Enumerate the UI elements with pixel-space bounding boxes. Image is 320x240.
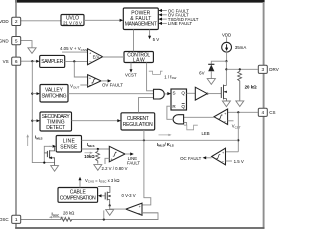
svg-text:5: 5: [15, 38, 18, 44]
wire DRV node vertical: [225, 61, 227, 84]
wire bus to valley switching: [32, 93, 37, 95]
wire buffer to driver gate: [207, 93, 221, 95]
node bus corner junction: [43, 162, 45, 164]
svg-text:OC FAULT: OC FAULT: [180, 156, 201, 161]
wire control law to AND gate: [147, 63, 154, 91]
wire VDD stub: [226, 37, 228, 42]
block UVLO: [61, 15, 84, 26]
arrow into VALLEY SWITCHING: [37, 92, 40, 95]
transistor Q2 (driver pulldown): [221, 85, 227, 101]
resistor 28k (zigzag): [61, 217, 73, 221]
wire CS pin to comparator: [228, 111, 258, 113]
wire clamp branch: [211, 61, 226, 64]
node DRV junction: [225, 68, 227, 70]
wire comparator to AND2: [184, 116, 214, 118]
wire fault input TSD/SD: [162, 18, 167, 20]
wire K line down to cable amp: [142, 140, 151, 205]
ground (line sense): [51, 166, 59, 172]
wire valley switching to AND gate: [68, 93, 154, 95]
op-amp EA: [88, 49, 103, 65]
wire LEB input stub: [184, 123, 187, 126]
wire latch Q to buffer: [187, 92, 196, 94]
transistor Q1 drain lead: [50, 147, 55, 151]
wire OV comparator output: [101, 80, 108, 82]
svg-text:4: 4: [261, 110, 264, 116]
svg-text:28 kΩ: 28 kΩ: [63, 211, 75, 216]
op-amp U9 (cable compensation amp, mirrored): [126, 203, 142, 216]
comparator U7 (overcurrent): [212, 148, 226, 165]
wire line sense lower output: [82, 148, 110, 150]
wire sampler output to EA: [65, 60, 88, 62]
svg-text:0 V-3 V: 0 V-3 V: [122, 193, 136, 198]
svg-text:IMLS: IMLS: [35, 135, 43, 141]
svg-text:2: 2: [15, 19, 18, 25]
svg-text:LAW: LAW: [133, 58, 145, 64]
zener D1 6V: [208, 64, 214, 78]
svg-text:DRV: DRV: [269, 67, 278, 72]
svg-text:1 / fSW: 1 / fSW: [164, 74, 176, 80]
svg-text:LINE: LINE: [63, 138, 76, 144]
block SAMPLER: [40, 55, 65, 67]
transistor Q1 (line sense NMOS) gate stub: [44, 152, 47, 154]
current direction arrow I_OSC (left): [51, 216, 64, 218]
wire current regulation to AND gate: [139, 98, 154, 113]
wire power management to control law: [133, 30, 135, 52]
transistor Q1 body arrow: [49, 157, 52, 160]
svg-text:−: −: [89, 59, 92, 64]
wire cable amp inverting input: [142, 212, 158, 214]
wire bus riser to line sense: [44, 146, 49, 162]
arrow into POWER & FAULT MANAGEMENT: [120, 19, 124, 22]
block CABLE COMPENSATION: [58, 188, 98, 203]
waveform LEB: [184, 125, 198, 130]
svg-text:VS: VS: [3, 59, 9, 64]
wire 5V output arrow: [149, 30, 151, 37]
gate U3 (AND): [154, 89, 165, 99]
svg-text:6: 6: [15, 59, 18, 65]
wire fault input OV: [162, 14, 167, 16]
current direction arrow (line sense): [85, 152, 92, 154]
pin 4 CS: [258, 108, 275, 116]
wire VDD pin to UVLO: [21, 20, 62, 22]
pin 3 DRV: [258, 65, 278, 73]
svg-text:VOUT: VOUT: [70, 84, 79, 90]
svg-text:VCVS = IOSC x 3 kΩ: VCVS = IOSC x 3 kΩ: [85, 178, 120, 184]
arrow into LINE SENSE: [53, 145, 56, 148]
ground (20k resistor): [236, 101, 244, 107]
wire fault input OC: [162, 10, 167, 12]
block CURRENT REGULATION: [121, 113, 155, 130]
ground (driver): [222, 101, 230, 107]
svg-text:VDD: VDD: [0, 19, 9, 24]
wire threshold stub: [105, 158, 109, 164]
arrow into latch S: [167, 92, 171, 95]
svg-text:Q: Q: [181, 104, 185, 109]
wire VCST arrow out of control law: [130, 63, 132, 71]
buffer U4 (gate driver): [195, 87, 207, 100]
node current regulation junction: [143, 139, 145, 141]
transistor Q1 channel: [49, 150, 51, 158]
comparator U5 (current sense): [214, 109, 228, 125]
svg-text:MANAGEMENT: MANAGEMENT: [125, 22, 157, 28]
pin 5 GND: [0, 37, 21, 45]
svg-text:IMLS: IMLS: [87, 142, 95, 148]
current source I1: [222, 42, 232, 52]
resistor R2 20k (zigzag): [238, 69, 242, 101]
svg-text:3: 3: [261, 67, 264, 73]
pin 1 OSC: [0, 215, 21, 223]
wire junction down to OV comparator: [74, 61, 87, 77]
transistor Q1 source lead: [50, 158, 55, 166]
ground (10k resistor): [94, 165, 102, 171]
svg-text:21 V / 8 V: 21 V / 8 V: [63, 20, 83, 25]
wire AND to latch S: [164, 93, 167, 95]
wire gate to cable compensation (arrow into box): [101, 195, 105, 197]
svg-text:20 kΩ: 20 kΩ: [245, 85, 258, 90]
svg-text:REGULATION: REGULATION: [123, 122, 153, 128]
svg-text:Q: Q: [181, 91, 185, 96]
wire VS pin to sampler: [21, 60, 38, 62]
pin 2 VDD: [0, 17, 21, 25]
svg-text:CS: CS: [269, 110, 275, 115]
arrow into SAMPLER: [36, 60, 39, 63]
node buffer output: [207, 93, 209, 95]
border frame: [15, 0, 265, 229]
svg-text:35mA: 35mA: [235, 45, 247, 50]
wire AND2 output to latch R: [167, 106, 173, 119]
svg-text:S: S: [172, 91, 175, 96]
svg-text:COMPENSATION: COMPENSATION: [60, 196, 96, 202]
node CS junction: [237, 111, 239, 113]
wire UVLO to power management: [84, 19, 121, 21]
svg-text:VDD: VDD: [222, 32, 231, 37]
svg-text:5 V: 5 V: [153, 37, 160, 42]
ground (GND pin): [28, 48, 36, 54]
block SECONDARY TIMING DETECT: [40, 112, 72, 131]
wire STD to current regulation: [72, 120, 119, 122]
comparator U8 (line fault): [109, 146, 125, 162]
current direction arrow (K line): [159, 134, 170, 136]
block POWER & FAULT MANAGEMENT: [123, 8, 158, 30]
svg-text:4.05 V + VCSS: 4.05 V + VCSS: [60, 46, 87, 52]
svg-text:FAULT: FAULT: [127, 161, 140, 166]
transistor Q3 (cable comp): [98, 186, 111, 205]
ground (zener): [207, 79, 215, 85]
wire CS vertical to K junction: [237, 112, 239, 152]
wire EA output to control law: [103, 56, 124, 58]
wire K line (secondary current): [82, 139, 239, 141]
wire VS bus vertical: [32, 61, 54, 162]
node clamp junction: [225, 60, 227, 62]
block CONTROL LAW: [124, 52, 153, 64]
svg-text:OSC: OSC: [0, 217, 9, 222]
wire line fault output: [125, 153, 131, 155]
node 10k junction: [97, 148, 99, 150]
current direction arrow I_MLS (up): [27, 137, 29, 146]
gate U6 (AND, LEB, mirrored): [173, 115, 184, 124]
svg-text:1: 1: [15, 217, 18, 223]
svg-text:6V: 6V: [199, 71, 204, 76]
arrow into CURRENT REGULATION: [117, 119, 121, 122]
arrow V_CVS out of cable compensation: [79, 180, 81, 188]
ground (cable comp): [106, 210, 114, 216]
wire OSC pin net: [21, 213, 158, 220]
svg-text:DETECT: DETECT: [46, 125, 65, 131]
waveform 1/fsw: [149, 71, 163, 74]
node OSC-cable junction: [103, 218, 105, 220]
svg-text:IOSC: IOSC: [52, 211, 61, 217]
wire bus to secondary timing detect: [32, 120, 37, 122]
wire OC comparator output: [206, 157, 212, 159]
svg-text:SWITCHING: SWITCHING: [42, 93, 67, 99]
node 20k junction: [239, 68, 241, 70]
latch U2 (SR flip-flop): [171, 89, 187, 110]
node K junction: [237, 139, 239, 141]
arrow into SECONDARY TIMING DETECT: [37, 119, 40, 122]
resistor R3 10k (zigzag): [96, 149, 100, 164]
svg-text:SENSE: SENSE: [60, 145, 78, 151]
wire 1.5V stub: [226, 160, 233, 162]
svg-text:2.2 V / 0.80 V: 2.2 V / 0.80 V: [102, 166, 128, 171]
pin 6 VS: [3, 57, 21, 65]
wire current regulation to K line: [143, 130, 145, 140]
wire fault input LINE: [162, 22, 167, 24]
svg-text:IMLS/ KLS: IMLS/ KLS: [157, 142, 174, 148]
svg-text:LEB: LEB: [202, 131, 210, 136]
node VS junction: [31, 60, 33, 62]
svg-text:LINE FAULT: LINE FAULT: [168, 21, 193, 26]
block VALLEY SWITCHING: [40, 85, 68, 103]
wire Vout stub to OV comparator: [80, 84, 87, 86]
comparator OV: [88, 75, 101, 88]
wire current source to DRV node: [226, 52, 228, 61]
wire DRV node to pin 3: [226, 68, 258, 70]
node bus-valley junction: [31, 93, 33, 95]
transistor Q1 gate bar: [46, 151, 48, 157]
svg-text:GND: GND: [0, 38, 9, 43]
svg-text:10kΩ: 10kΩ: [84, 154, 95, 159]
node bus-std junction: [31, 120, 33, 122]
svg-text:SAMPLER: SAMPLER: [41, 59, 63, 65]
block LINE SENSE: [56, 136, 81, 153]
wire GND pin to ground: [21, 41, 33, 48]
node Vout junction: [73, 60, 75, 62]
svg-text:VCST: VCST: [232, 124, 241, 130]
wire cable amp output: [110, 208, 126, 210]
svg-text:OV FAULT: OV FAULT: [102, 83, 123, 88]
node cable amp junction: [109, 204, 111, 206]
wire OSC junction riser: [103, 210, 105, 219]
wire CST stub: [228, 120, 234, 122]
svg-text:1.5 V: 1.5 V: [234, 159, 244, 164]
svg-text:VCST: VCST: [125, 73, 137, 78]
svg-text:E/A: E/A: [93, 55, 100, 60]
wire to ground (cable comp): [109, 206, 111, 210]
wire into OC comparator: [226, 151, 239, 153]
wire EA reference input: [62, 51, 88, 53]
